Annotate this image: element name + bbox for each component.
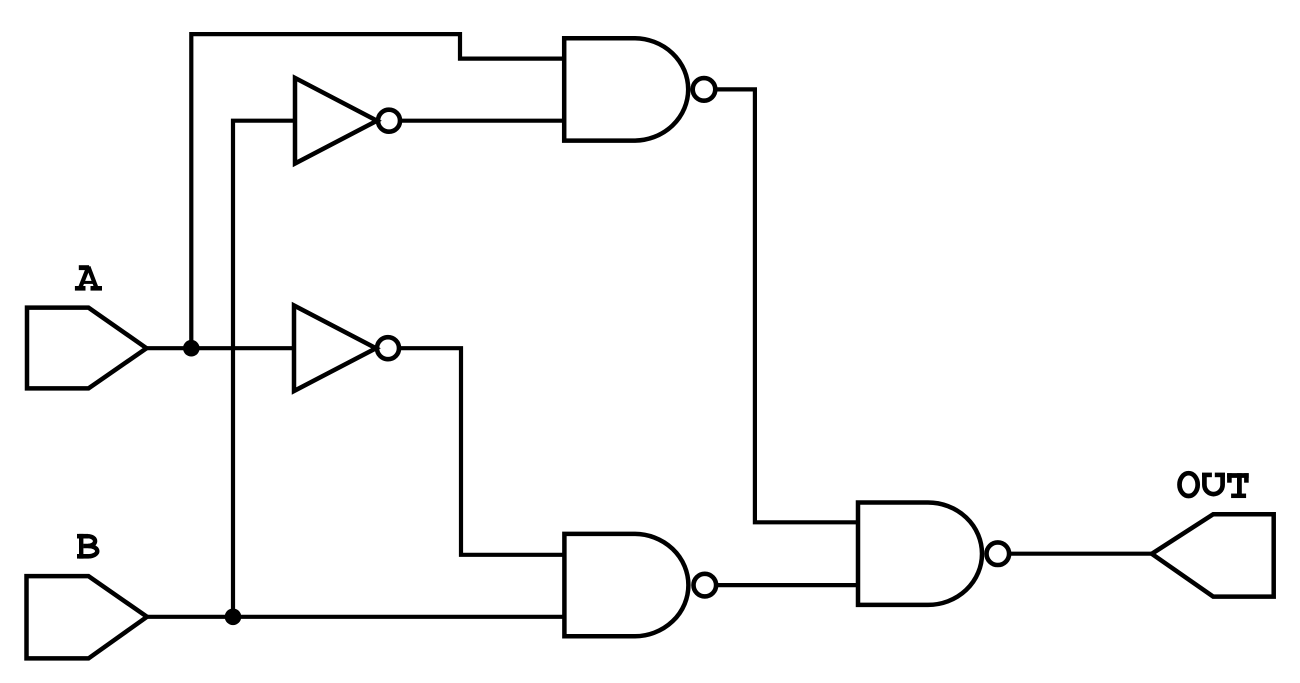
label B — [77, 534, 97, 559]
inverter U1 triangle — [295, 78, 377, 164]
NAND U4 bubble — [694, 574, 717, 597]
NAND U5 bubble — [987, 542, 1010, 565]
NAND U3 body — [564, 38, 688, 140]
wire inverter U1 output to NAND U3 bottom input — [400, 119, 565, 123]
junction dot on A net — [183, 340, 200, 357]
NAND U4 body — [564, 534, 688, 636]
inverter U1 bubble — [378, 110, 400, 132]
wire A net up and over to NAND U3 top input — [191, 34, 564, 348]
label A — [75, 267, 102, 289]
label OUT — [1180, 473, 1249, 496]
wire NAND U5 output to OUT port — [1009, 552, 1152, 556]
inverter U2 bubble — [377, 337, 399, 359]
wire A stub to inverter U2 input — [147, 346, 295, 350]
inverter U2 triangle — [294, 306, 376, 392]
input port B — [27, 576, 148, 658]
junction dot on B net — [225, 609, 242, 626]
wire inverter U2 output down to NAND U4 top input — [400, 348, 565, 555]
input port A — [27, 308, 147, 389]
NAND U5 body — [858, 503, 982, 605]
wire NAND U4 output to NAND U5 bottom input — [716, 583, 858, 587]
NAND U3 bubble — [693, 78, 716, 101]
wire NAND U3 output down to NAND U5 top input — [715, 89, 858, 522]
output port OUT — [1152, 514, 1274, 596]
wire B net vertical up to inverter U1 input — [233, 121, 295, 617]
wire B net horizontal to NAND U4 bottom input — [147, 615, 564, 619]
